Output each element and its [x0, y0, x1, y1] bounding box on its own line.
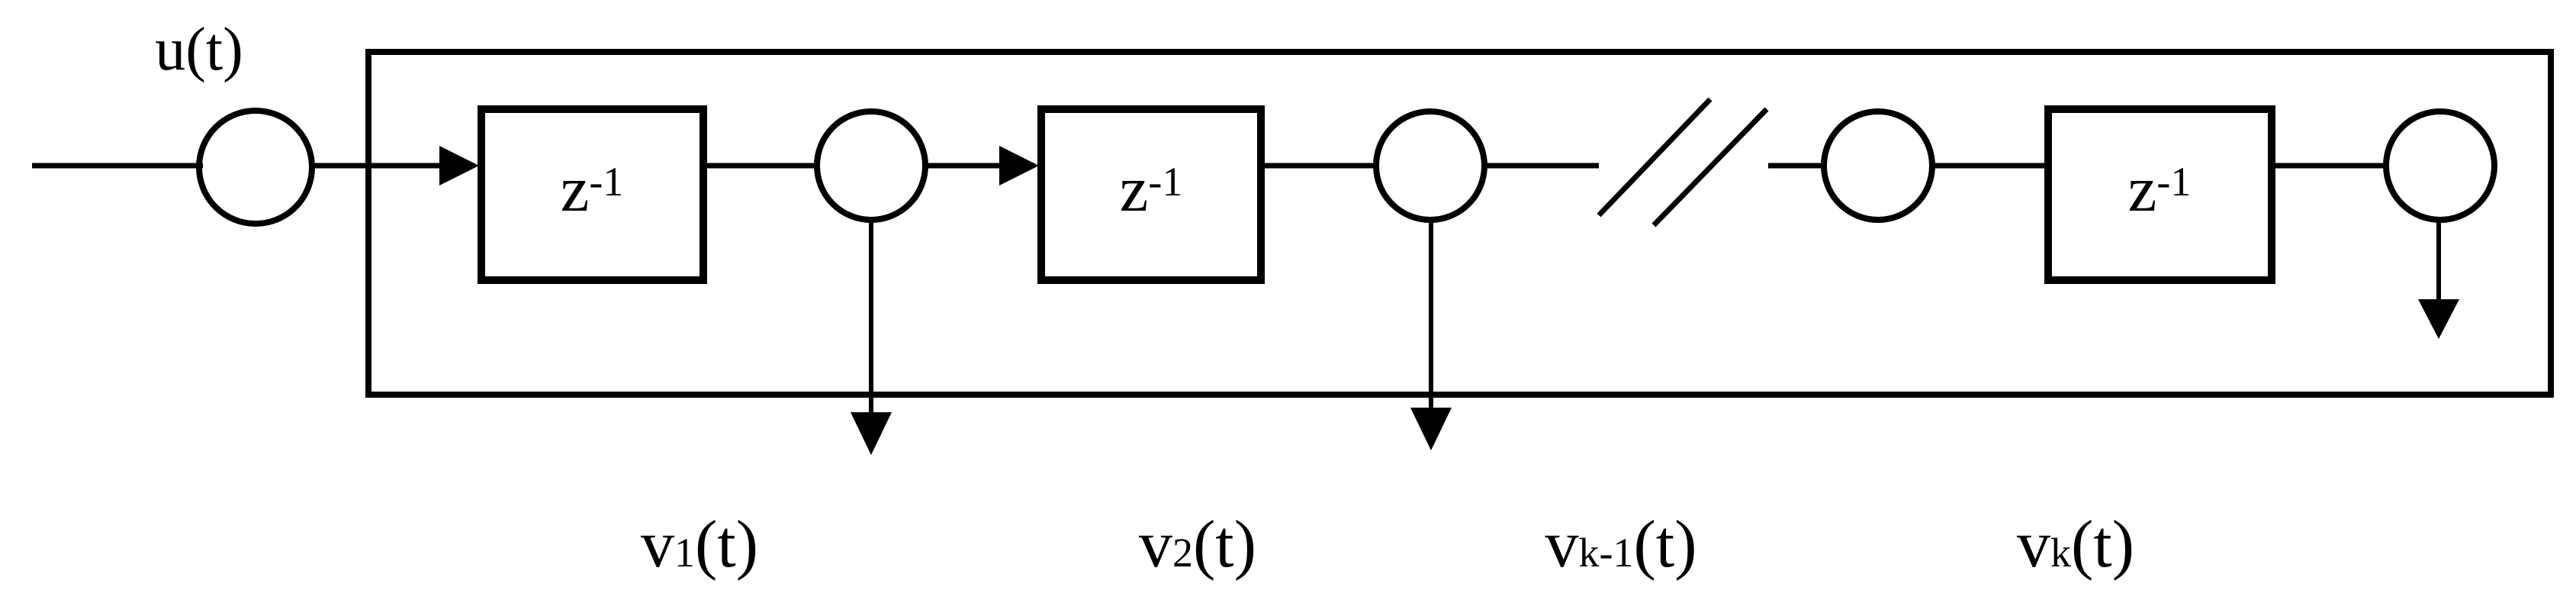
svg-text:v1(t): v1(t) [641, 508, 758, 582]
svg-text:u(t): u(t) [155, 16, 243, 83]
svg-text:vk(t): vk(t) [2017, 508, 2134, 582]
svg-text:v2(t): v2(t) [1139, 508, 1256, 582]
